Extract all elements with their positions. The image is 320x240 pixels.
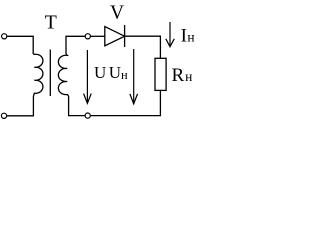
wire: top-left terminal to primary winding bbox=[7, 36, 33, 54]
voltage arrow Uн bbox=[130, 49, 138, 104]
resistor Rн bbox=[155, 58, 166, 90]
transformer T primary winding bbox=[33, 54, 43, 97]
diode cathode bar bbox=[124, 25, 126, 47]
svg-text:н: н bbox=[187, 30, 194, 45]
svg-text:н: н bbox=[185, 69, 192, 84]
terminal: secondary output bottom bbox=[85, 113, 90, 118]
transformer core bbox=[49, 50, 51, 97]
diode V bbox=[105, 27, 125, 46]
svg-text:R: R bbox=[172, 65, 185, 86]
svg-text:T: T bbox=[45, 12, 57, 34]
voltage arrow U bbox=[84, 50, 92, 103]
current arrow Iн bbox=[166, 22, 175, 47]
terminal: secondary output top bbox=[85, 34, 90, 39]
svg-text:I: I bbox=[181, 26, 187, 47]
wire: primary winding bottom to bottom-left terminal bbox=[7, 97, 34, 116]
svg-text:U: U bbox=[94, 63, 106, 82]
svg-text:U: U bbox=[109, 63, 121, 82]
wire: top terminal to diode anode bbox=[91, 35, 105, 37]
wire: diode cathode to resistor top corner bbox=[125, 36, 161, 58]
transformer T secondary winding bbox=[58, 54, 68, 96]
wire: secondary winding top to output terminal bbox=[66, 36, 85, 54]
wire: resistor bottom to bottom rail bbox=[91, 90, 161, 115]
terminal: primary input bottom bbox=[1, 113, 6, 118]
wire: secondary winding bottom to bottom output terminal bbox=[69, 96, 85, 116]
svg-text:V: V bbox=[110, 2, 124, 23]
svg-text:н: н bbox=[121, 68, 128, 82]
terminal: primary input top bbox=[2, 34, 7, 39]
